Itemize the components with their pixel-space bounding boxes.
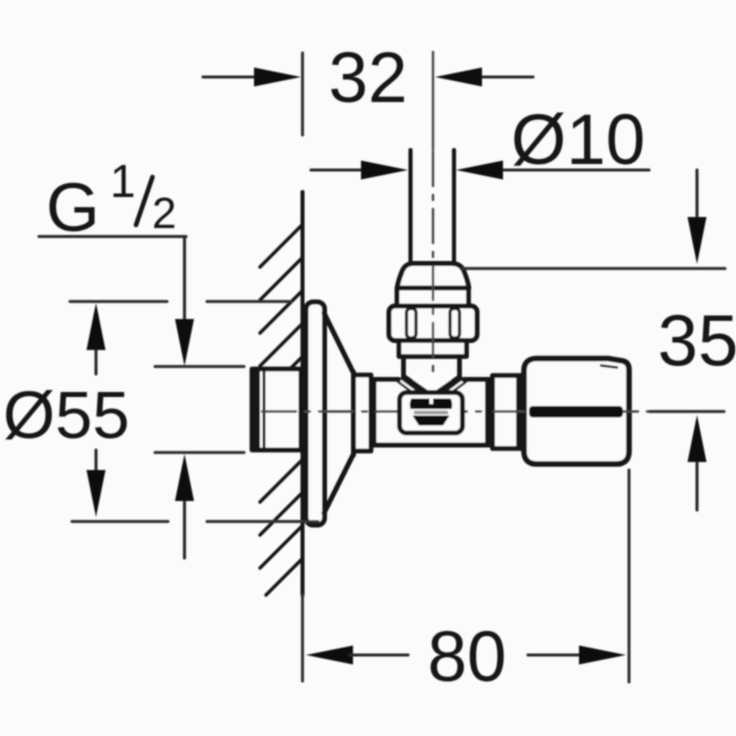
svg-text:32: 32 — [329, 39, 408, 118]
svg-text:1: 1 — [110, 155, 136, 207]
horizontal centerline of valve axis — [262, 410, 660, 412]
extension line of 32 dim on wall — [301, 53, 304, 135]
dim 35: upper tail — [695, 170, 698, 220]
GROHE label plate — [400, 393, 463, 434]
dim 35: lower arrowhead — [688, 415, 707, 462]
GROHE logo bowl — [413, 416, 450, 426]
label G 1/2: up arrowhead — [175, 454, 194, 501]
nut lower collar — [399, 341, 467, 357]
compression band — [397, 288, 469, 306]
hex flat left — [407, 309, 417, 339]
dim 80: extension line right (handle) — [628, 470, 631, 682]
wall face line — [301, 192, 305, 595]
dim Ø10: right arrowhead — [456, 161, 503, 180]
dim Ø55: lower tail — [94, 450, 97, 472]
compression cap dome — [397, 264, 469, 289]
svg-text:Ø55: Ø55 — [3, 378, 130, 453]
handle knob — [524, 359, 629, 465]
dim 80: dimension line left — [350, 653, 408, 656]
dim 35: extension line at inlet top — [462, 267, 725, 270]
flange cone — [324, 313, 354, 513]
body end cap thick line — [485, 378, 493, 447]
dim Ø55: top extension line — [70, 300, 291, 303]
label G 1/2: lower tail — [183, 500, 186, 558]
svg-text:G: G — [46, 169, 100, 246]
collar ring — [354, 375, 372, 451]
svg-text:2: 2 — [152, 189, 176, 238]
hex flat right — [450, 309, 460, 339]
dim 35: upper arrowhead — [688, 217, 707, 264]
dim Ø10: left tail — [311, 168, 364, 171]
escutcheon flange plate — [306, 302, 325, 525]
valve body — [374, 380, 491, 446]
extension line of 80 dim below wall — [301, 595, 304, 681]
dim 32: right arrowhead — [435, 68, 482, 87]
dim Ø55: lower arrowhead — [87, 470, 106, 517]
compression hex nut — [389, 306, 477, 341]
label G 1/2: down arrowhead — [175, 319, 194, 366]
label G 1/2: thread top extension line — [155, 365, 244, 368]
dim Ø55: bottom extension line — [72, 520, 318, 523]
svg-text:Ø10: Ø10 — [511, 101, 645, 180]
dim 80: dimension line right — [528, 653, 582, 656]
inlet chamfer lines — [398, 379, 467, 395]
G1/2 threaded tail piece — [251, 368, 301, 451]
dim Ø55: upper tail — [94, 348, 97, 374]
dim 32: dimension line right part — [480, 75, 533, 78]
label G 1/2: fraction slash — [136, 177, 153, 225]
dim 32: left arrowhead — [254, 68, 301, 87]
handle groove — [529, 406, 623, 418]
label G 1/2: leader vertical — [183, 237, 186, 323]
dim 80: right arrowhead — [579, 646, 626, 665]
svg-text:35: 35 — [658, 301, 736, 382]
stem neck — [493, 376, 522, 449]
dim Ø55: upper arrowhead — [87, 303, 106, 350]
vertical centerline upper segment — [432, 52, 434, 150]
dim Ø10: right tail — [500, 168, 649, 171]
nut neck — [404, 357, 460, 377]
inlet funnel — [405, 377, 460, 393]
inlet pipe — [411, 150, 455, 264]
GROHE logo small marks — [414, 411, 448, 414]
dim 35: lower tail — [695, 460, 698, 510]
svg-text:80: 80 — [428, 618, 507, 697]
dim Ø10: left arrowhead — [361, 161, 408, 180]
wall hatching — [260, 225, 302, 595]
label G 1/2: leader underline — [39, 235, 186, 238]
dim 35: extension line at handle axis — [650, 410, 724, 413]
vertical centerline of pipe — [432, 152, 434, 375]
dim 80: left arrowhead — [306, 646, 353, 665]
label G 1/2: thread bottom extension line — [155, 451, 244, 454]
dim 32: dimension line left part — [203, 75, 258, 78]
GROHE logo text band — [410, 399, 452, 410]
